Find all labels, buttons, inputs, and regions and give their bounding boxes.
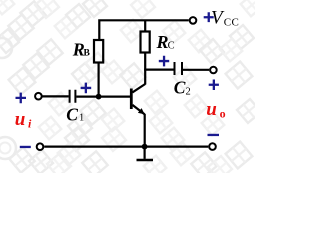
plus sign C1 polarity	[81, 83, 92, 94]
terminal input +	[35, 93, 42, 100]
svg-text:1: 1	[79, 113, 84, 124]
wire bottom rail	[44, 146, 208, 148]
junction dot base node	[96, 94, 102, 100]
plus sign input	[16, 93, 27, 104]
wire input terminal to C1	[43, 95, 69, 97]
watermark emblem ring bottom-left	[0, 137, 16, 159]
wire top rail	[99, 20, 189, 40]
capacitor C1 plates	[70, 90, 76, 103]
wire RB to base node	[97, 63, 99, 97]
wire emitter down	[144, 114, 146, 147]
transistor emitter arm	[132, 105, 144, 115]
junction dot emitter-ground	[142, 144, 148, 150]
svg-text:C: C	[66, 105, 78, 125]
terminal output -	[209, 143, 216, 150]
svg-text:R: R	[156, 32, 169, 52]
wire collector row to C2	[144, 68, 173, 70]
minus sign input	[20, 146, 31, 148]
svg-text:u: u	[15, 109, 26, 130]
svg-text:o: o	[220, 106, 226, 120]
resistor RB	[94, 40, 103, 63]
svg-text:2: 2	[186, 87, 191, 98]
terminal output +	[210, 67, 217, 74]
wire RC to collector	[144, 53, 146, 85]
minus sign output	[208, 134, 220, 136]
plus sign Vcc	[204, 12, 214, 22]
transistor collector arm	[132, 84, 145, 92]
plus sign C2 polarity	[159, 56, 169, 67]
svg-text:C: C	[168, 40, 175, 51]
transistor emitter arrow	[138, 108, 145, 114]
terminal Vcc	[190, 17, 197, 24]
wire C2 to output terminal	[183, 69, 209, 71]
plus sign output	[209, 80, 219, 91]
svg-text:C: C	[174, 78, 186, 98]
svg-text:u: u	[206, 99, 217, 120]
wire RC branch top	[144, 20, 146, 32]
svg-text:CC: CC	[224, 17, 239, 29]
transistor Q base bar	[130, 89, 133, 110]
resistor RC	[141, 32, 150, 53]
watermark emblem ring left	[0, 38, 12, 58]
watermark background pattern	[0, 0, 263, 180]
svg-text:B: B	[84, 49, 91, 59]
ground bar	[137, 159, 154, 162]
ground stub	[144, 147, 146, 159]
capacitor C2 plates	[175, 62, 183, 75]
terminal input -	[37, 143, 44, 150]
wire C1 to base	[76, 95, 130, 97]
svg-text:i: i	[28, 117, 32, 131]
